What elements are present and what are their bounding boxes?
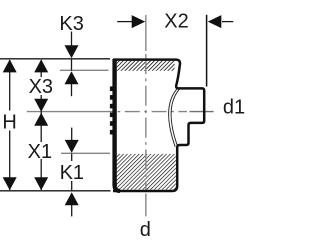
svg-text:X2: X2 <box>164 11 188 33</box>
svg-text:H: H <box>2 111 16 133</box>
svg-text:X1: X1 <box>28 141 52 163</box>
svg-text:d1: d1 <box>223 97 245 119</box>
svg-text:d: d <box>140 219 151 241</box>
svg-text:K3: K3 <box>59 13 83 35</box>
svg-text:K1: K1 <box>60 162 84 184</box>
svg-text:X3: X3 <box>29 76 53 98</box>
